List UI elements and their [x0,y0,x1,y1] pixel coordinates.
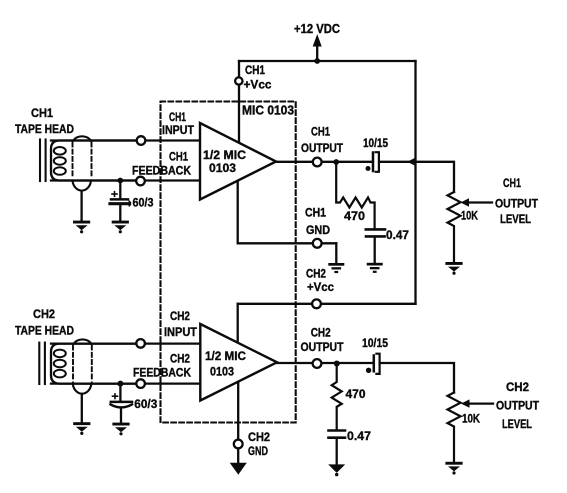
svg-text:470: 470 [346,387,366,401]
capacitor 10/15 CH1 [366,152,379,172]
svg-text:+Vcc: +Vcc [244,78,272,92]
label CH2 OUTPUT [301,326,344,355]
tape head L1 core [40,140,46,182]
power +12 VDC arrow [313,36,321,64]
resistor 470 CH1 [336,162,374,228]
ground CH1 GND [328,263,344,273]
op-amp U1b 1/2 MIC 0103 [200,324,277,401]
label 1/2 MIC 0103 (U1a) [203,148,246,175]
svg-text:+Vcc: +Vcc [307,280,334,294]
label CH2 FEEDBACK [133,352,191,380]
label CH1 FEEDBACK [132,150,191,178]
node CH1 GND terminal [313,239,322,248]
junction 60/3 CH2 [117,381,123,387]
wire CH1 ground corner [335,243,337,262]
svg-text:CH2: CH2 [170,309,190,323]
svg-text:+12 VDC: +12 VDC [294,21,340,36]
svg-text:CH1: CH1 [169,150,188,164]
wire CH1 output [276,161,372,163]
tape head L2 body [51,344,137,384]
wiper arrow CH2 [461,399,493,407]
tape head L1 shield [73,136,92,221]
wire +12V top rail [239,60,416,62]
svg-text:0103: 0103 [209,161,236,175]
ground 0.47 CH1 [367,263,383,273]
label CH1 TAPE HEAD [15,106,74,136]
label CH2 GND [248,430,270,458]
tape head L1 coil turns [54,147,66,175]
node CH2 +Vcc terminal [312,299,321,308]
junction 60/3 CH1 [117,178,123,184]
svg-text:CH1: CH1 [311,125,330,139]
potentiometer 10K CH2 [448,393,461,463]
junction CH1 output [333,159,339,165]
svg-text:CH1: CH1 [503,176,521,190]
resistor 470 CH2 [332,364,342,430]
svg-text:470: 470 [344,209,365,223]
svg-text:CH1: CH1 [169,110,186,124]
wire CH2 +Vcc [238,303,416,305]
svg-text:60/3: 60/3 [133,196,154,210]
tape head L2 shield [73,339,92,422]
svg-text:CH2: CH2 [306,267,326,281]
svg-text:10/15: 10/15 [362,336,388,350]
svg-text:CH2: CH2 [311,326,331,340]
node CH2 input terminal [136,339,145,348]
label CH1 OUTPUT LEVEL [495,176,538,226]
dashed box MIC 0103 package [161,102,296,423]
ground 60/3 CH1 [112,221,129,234]
node CH2 output terminal [313,359,322,368]
tape head L2 core [39,343,45,384]
svg-text:TAPE HEAD: TAPE HEAD [15,122,74,136]
node CH2 GND terminal [234,440,243,449]
svg-text:0103: 0103 [210,365,234,379]
wire CH1 input [51,139,200,141]
svg-text:OUTPUT: OUTPUT [301,141,343,155]
svg-text:OUTPUT: OUTPUT [496,399,539,413]
label CH1 INPUT [162,110,194,137]
svg-text:CH2: CH2 [248,430,270,444]
svg-text:LEVEL: LEVEL [502,417,532,431]
svg-text:INPUT: INPUT [162,123,194,137]
capacitor 0.47 CH2 [329,431,346,465]
label CH1 +Vcc [244,63,272,92]
node CH2 feedback terminal [136,379,145,388]
svg-text:CH2: CH2 [506,380,529,394]
wire CH2 output [277,362,372,364]
label 1/2 MIC 0103 (U1b) [205,349,246,379]
ground shield CH1 [73,221,90,234]
tape head L1 body [51,141,137,181]
wire CH2 +Vcc drop [237,304,239,343]
ground shield CH2 [73,422,90,435]
wire +12V right vertical [414,61,416,304]
ground pot CH1 [445,262,462,275]
label CH2 INPUT [164,309,197,339]
svg-text:TAPE HEAD: TAPE HEAD [15,324,74,338]
wire CH2 feedback [51,382,200,384]
svg-text:10K: 10K [461,209,478,223]
wire CH1 feedback [51,179,200,181]
potentiometer 10K CH1 [448,192,461,262]
svg-text:0.47: 0.47 [347,429,371,443]
svg-text:MIC 0103: MIC 0103 [242,104,294,118]
tape head L2 coil turns [54,350,66,378]
wire CH2 ground drop [237,382,239,444]
svg-text:CH2: CH2 [170,352,190,366]
svg-text:FEEDBACK: FEEDBACK [132,164,191,178]
svg-text:FEEDBACK: FEEDBACK [133,366,191,380]
ground 60/3 CH2 [112,423,129,436]
svg-text:GND: GND [248,444,268,458]
svg-text:10K: 10K [462,412,480,426]
wire CH1 output to pot [379,162,454,192]
wire CH2 ground stem [237,448,239,463]
svg-text:10/15: 10/15 [363,136,388,150]
svg-text:1/2 MIC: 1/2 MIC [203,148,246,162]
svg-text:CH2: CH2 [33,307,55,321]
ground 0.47 CH2 [328,464,345,476]
node CH1 feedback terminal [136,177,145,186]
svg-text:CH1: CH1 [305,206,326,220]
capacitor 60/3 CH1 [110,181,131,221]
label CH1 OUTPUT [301,125,343,156]
svg-text:CH1: CH1 [245,63,265,77]
wire CH1 +Vcc drop [238,61,240,142]
wiper arrow CH1 [461,198,493,206]
svg-text:INPUT: INPUT [164,325,197,339]
node CH1 +Vcc terminal [235,77,242,84]
ground CH2 GND arrow [230,463,247,475]
capacitor 10/15 CH2 [366,354,380,374]
label CH2 TAPE HEAD [15,307,74,338]
label CH2 OUTPUT LEVEL [496,380,539,431]
node CH1 input terminal [137,136,146,145]
svg-text:LEVEL: LEVEL [500,212,531,226]
svg-text:0.47: 0.47 [386,228,409,242]
label CH2 +Vcc [306,267,334,295]
junction arrow at +12V crossing [407,157,416,166]
svg-text:OUTPUT: OUTPUT [495,197,538,211]
node CH1 output terminal [313,158,322,167]
wire CH1 ground drop [238,182,337,244]
svg-text:GND: GND [306,223,330,237]
wire CH2 input [51,342,200,344]
svg-text:CH1: CH1 [31,106,53,120]
svg-text:60/3: 60/3 [134,397,157,411]
ground pot CH2 [445,462,462,475]
op-amp U1a 1/2 MIC 0103 [200,123,276,200]
label CH1 GND [305,206,330,238]
capacitor 0.47 CH1 [366,229,385,262]
wire CH2 output to pot [380,363,454,393]
junction CH2 output [334,361,340,367]
svg-text:1/2 MIC: 1/2 MIC [205,349,246,363]
capacitor 60/3 CH2 [111,384,133,423]
svg-text:OUTPUT: OUTPUT [301,340,344,354]
